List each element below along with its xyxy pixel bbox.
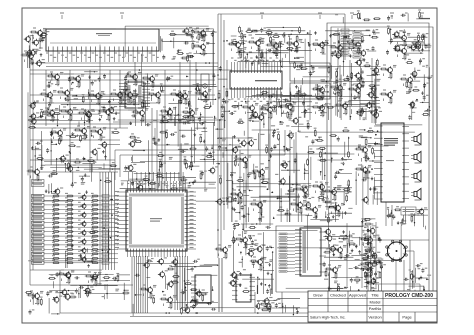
value label [349, 34, 352, 36]
wire [276, 226, 368, 292]
ground [272, 134, 275, 137]
value label [241, 100, 243, 102]
value label [133, 90, 136, 92]
wire [51, 140, 53, 143]
value label [198, 88, 201, 90]
node [280, 121, 282, 123]
node [191, 169, 192, 170]
capacitor C72 [319, 105, 324, 108]
value label [341, 51, 344, 53]
capacitor C3 [300, 64, 303, 69]
net label P12 [279, 270, 287, 272]
resistor R226 [169, 34, 177, 36]
wire [160, 36, 162, 52]
value label [307, 105, 310, 107]
resistor R26 [66, 217, 74, 219]
resistor R259 [307, 122, 309, 130]
value label [260, 59, 262, 61]
value label [222, 144, 225, 146]
value label [93, 126, 96, 128]
wire [105, 172, 107, 270]
resistor R178 [30, 31, 38, 33]
wire [173, 99, 175, 102]
resistor R112 [280, 105, 288, 107]
value label [258, 212, 261, 214]
node [369, 35, 371, 37]
ground [102, 150, 105, 153]
value label [43, 28, 46, 30]
resistor R299 [362, 80, 364, 88]
wire [43, 99, 45, 102]
resistor R214 [159, 160, 161, 168]
value label [91, 259, 94, 261]
transistor Q107 [367, 91, 374, 99]
wire [391, 205, 393, 226]
value label [111, 107, 114, 109]
wire [287, 267, 295, 269]
value label [133, 84, 136, 86]
wire [119, 70, 121, 128]
value label [103, 93, 106, 95]
transistor Q72 [199, 43, 206, 51]
wire [84, 115, 86, 126]
resistor R53 [66, 257, 74, 259]
wire [50, 81, 52, 84]
node [272, 106, 273, 107]
resistor R43 [52, 244, 60, 246]
transistor Q30 [234, 41, 241, 49]
transistor Q68 [33, 168, 40, 176]
resistor R128 [335, 104, 343, 106]
transistor Q89 [334, 52, 341, 60]
value label [214, 31, 217, 33]
U2 part number text [255, 80, 277, 81]
value label [373, 87, 376, 89]
resistor R59 [57, 79, 59, 87]
wire [136, 172, 138, 181]
value label [114, 106, 117, 108]
value label [140, 120, 143, 122]
capacitor C76 [356, 79, 361, 82]
value label [52, 237, 55, 239]
transistor Q29 [96, 128, 103, 136]
wire [173, 296, 176, 298]
transistor Q36 [286, 103, 293, 111]
transistor Q91 [392, 31, 399, 39]
value label [223, 257, 226, 259]
value label [339, 99, 343, 101]
wire [232, 181, 234, 200]
wire [136, 94, 138, 98]
wire [245, 112, 247, 115]
node [213, 159, 214, 160]
wire [287, 270, 295, 272]
wire [338, 32, 340, 51]
value label [208, 152, 211, 154]
value label [91, 237, 94, 239]
transistor Q41 [336, 84, 343, 92]
value label [379, 110, 382, 112]
wire [238, 189, 241, 191]
resistor R31 [52, 226, 60, 228]
wire [226, 60, 228, 205]
value label [168, 307, 171, 309]
resistor R8 [364, 275, 372, 277]
wire [40, 62, 218, 64]
node [288, 197, 289, 198]
resistor R292 [254, 172, 256, 180]
ground [231, 207, 234, 210]
value label [270, 101, 273, 103]
value label [157, 140, 160, 142]
value label [133, 56, 136, 58]
value label [279, 206, 282, 208]
resistor R85 [88, 116, 90, 124]
node [326, 81, 327, 82]
value label [364, 233, 367, 235]
value label [171, 30, 174, 32]
wire [237, 104, 242, 106]
value label [179, 183, 181, 185]
value label [273, 110, 277, 112]
wire [158, 183, 160, 188]
value label [320, 52, 323, 54]
resistor R46 [52, 249, 60, 251]
wire [123, 91, 126, 93]
node [197, 86, 198, 87]
wire [151, 85, 216, 87]
capacitor C40 [201, 171, 204, 176]
resistor R182 [193, 31, 201, 33]
value label [34, 51, 37, 53]
value label [114, 223, 119, 225]
transistor Q86 [365, 101, 372, 109]
resistor R52 [52, 257, 60, 259]
capacitor C79 [344, 34, 347, 39]
value label [264, 27, 267, 29]
value label [257, 57, 259, 59]
value label [388, 77, 391, 79]
node [339, 45, 340, 46]
wire [335, 75, 337, 116]
wire [325, 30, 370, 32]
capacitor C32 [153, 137, 156, 142]
wire [30, 159, 115, 161]
svg-text:PROLOGY CMD-200: PROLOGY CMD-200 [385, 293, 433, 299]
resistor R217 [206, 156, 214, 158]
value label [202, 31, 205, 33]
value label [145, 108, 148, 110]
resistor R303 [422, 114, 430, 116]
resistor R104 [266, 44, 274, 46]
ground [104, 155, 107, 158]
wire [217, 14, 219, 258]
value label [259, 94, 262, 96]
value label [134, 91, 137, 93]
svg-text:PartNo: PartNo [369, 306, 382, 311]
transistor Q9 [53, 73, 60, 81]
capacitor C54 [267, 49, 272, 52]
value label [145, 73, 148, 75]
net label P2 [279, 236, 287, 238]
capacitor C81 [333, 88, 338, 91]
resistor R10 [52, 195, 60, 197]
wire [216, 163, 219, 165]
value label [91, 224, 94, 226]
resistor R232 [185, 34, 193, 36]
value label [407, 33, 410, 35]
node [223, 201, 225, 203]
value label [112, 162, 115, 164]
key switch S12 [102, 244, 109, 247]
value label [53, 90, 56, 92]
wire [145, 83, 147, 86]
capacitor C38 [182, 121, 187, 124]
value label [361, 77, 364, 79]
value label [265, 144, 268, 146]
node [335, 50, 337, 52]
loudspeaker LS1 [411, 133, 421, 144]
value label [114, 219, 119, 221]
value label [274, 53, 277, 55]
value label [231, 39, 234, 41]
transistor Q34 [248, 104, 255, 112]
value label [240, 40, 243, 42]
capacitor C74 [337, 91, 340, 96]
value label [414, 86, 417, 88]
resistor R78 [195, 92, 203, 94]
value label [168, 119, 171, 121]
connector CN2 pin 2 [32, 184, 45, 187]
wire [283, 98, 288, 100]
ground [82, 157, 85, 160]
capacitor C60 [245, 58, 248, 63]
value label [52, 250, 55, 252]
wire [160, 122, 200, 124]
capacitor C13 [46, 85, 51, 88]
value label [343, 83, 346, 85]
transistor Q95 [409, 44, 416, 52]
value label [233, 189, 236, 191]
wire [44, 217, 118, 219]
resistor R275 [376, 59, 378, 67]
wire [53, 137, 55, 140]
resistor R93 [192, 115, 194, 123]
value label [393, 37, 396, 39]
value label [61, 269, 64, 271]
capacitor C49 [211, 32, 214, 37]
value label [383, 89, 386, 91]
wire [142, 256, 144, 313]
wire [108, 172, 110, 270]
wire [255, 33, 312, 35]
resistor R73 [130, 97, 132, 105]
wire [130, 316, 428, 318]
wire [196, 51, 198, 54]
wire [46, 109, 130, 111]
node [238, 189, 240, 191]
wire [174, 256, 176, 310]
value label [50, 71, 53, 73]
value label [152, 54, 155, 56]
value label [339, 78, 342, 80]
capacitor C25 [179, 99, 182, 104]
resistor R108 [242, 106, 250, 108]
wire [368, 239, 429, 241]
resistor R164 [360, 263, 368, 265]
wire [241, 41, 244, 43]
wire [131, 256, 133, 313]
value label [114, 235, 119, 237]
wire [221, 258, 223, 312]
key switch S7 [102, 221, 109, 224]
wire [293, 139, 295, 173]
ground [349, 54, 352, 57]
resistor R149 [240, 197, 242, 205]
value label [71, 270, 74, 272]
resistor R188 [110, 93, 118, 95]
value label [421, 42, 424, 44]
U1 pin numbers [50, 43, 156, 44]
node [360, 76, 362, 78]
value label [289, 116, 292, 118]
net label P7 [279, 253, 287, 255]
value label [373, 33, 376, 35]
value label [282, 43, 285, 45]
wire [46, 79, 215, 81]
value label [368, 272, 371, 274]
value label [426, 94, 429, 96]
value label [236, 52, 239, 54]
resistor R3 [316, 88, 324, 90]
wire [214, 116, 216, 126]
resistor R244 [239, 26, 241, 34]
value label [153, 183, 155, 185]
wire [178, 172, 180, 181]
capacitor C101 [218, 145, 221, 150]
node [298, 209, 299, 210]
value label [35, 303, 38, 305]
ground [270, 100, 273, 103]
value label [206, 42, 209, 44]
value label [261, 42, 264, 44]
capacitor C85 [424, 44, 427, 49]
ground [238, 139, 241, 142]
wire [50, 167, 102, 169]
net label P8 [279, 257, 287, 259]
wire [89, 70, 91, 172]
wire [259, 195, 300, 197]
wire [121, 89, 130, 91]
ground [338, 40, 341, 43]
resistor R218 [184, 158, 186, 166]
wire [151, 108, 153, 190]
transistor Q53 [258, 168, 265, 176]
ground [295, 85, 298, 88]
value label [279, 41, 282, 43]
value label [66, 154, 69, 156]
resistor R291 [237, 180, 245, 182]
wire [200, 158, 215, 160]
wire [287, 236, 295, 238]
wire [276, 90, 278, 115]
value label [257, 98, 259, 100]
value label [278, 52, 281, 54]
svg-text:Checked: Checked [330, 293, 346, 298]
transistor Q60 [331, 266, 338, 274]
value label [133, 102, 136, 104]
value label [40, 291, 43, 293]
value label [362, 81, 365, 83]
transistor Q57 [241, 236, 248, 244]
value label [364, 227, 367, 229]
value label [250, 57, 252, 59]
svg-text:Saturn High-Tech, Inc.: Saturn High-Tech, Inc. [310, 316, 346, 320]
value label [65, 228, 68, 230]
value label [173, 295, 176, 297]
value label [240, 48, 243, 50]
resistor R136 [400, 78, 408, 80]
value label [262, 216, 265, 218]
ground [194, 133, 197, 136]
resistor R234 [241, 32, 243, 40]
resistor R284 [266, 146, 268, 154]
connector CN1 pin 13 [32, 248, 45, 251]
resistor R265 [317, 98, 325, 100]
node [51, 133, 53, 135]
node [267, 189, 269, 191]
wire [287, 264, 295, 266]
U5 text block [384, 138, 398, 161]
node [210, 105, 212, 107]
resistor R107 [296, 46, 298, 54]
value label [272, 39, 275, 41]
key switch S16 [102, 261, 109, 264]
wire [327, 107, 329, 120]
resistor R94 [50, 131, 58, 133]
value label [114, 227, 119, 229]
resistor R150 [250, 203, 258, 205]
resistor R162 [360, 238, 368, 240]
net label P5 [279, 247, 287, 249]
resistor R304 [406, 62, 414, 64]
wire [337, 28, 339, 69]
wire [127, 83, 129, 85]
wire [256, 94, 283, 96]
wire [308, 72, 314, 74]
value label [273, 100, 275, 102]
node [86, 136, 88, 138]
value label [206, 103, 209, 105]
wire [69, 148, 71, 172]
wire [250, 189, 253, 191]
value label [40, 167, 43, 169]
value label [183, 183, 185, 185]
resistor R269 [336, 70, 338, 78]
resistor R148 [230, 193, 238, 195]
wire [88, 119, 90, 123]
wire [207, 42, 215, 44]
wire [396, 44, 430, 46]
resistor R44 [66, 244, 74, 246]
value label [261, 182, 263, 184]
value label [52, 197, 55, 199]
value label [350, 44, 353, 46]
capacitor C34 [181, 135, 186, 138]
value label [164, 118, 167, 120]
ground [329, 34, 332, 37]
transistor Q7 [80, 247, 86, 254]
